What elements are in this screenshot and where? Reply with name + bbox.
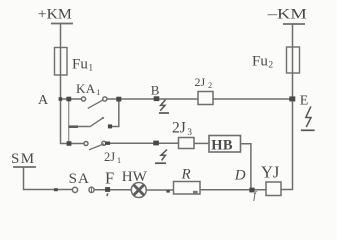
svg-text:D: D [234, 168, 246, 184]
svg-text:Fu2: Fu2 [252, 54, 273, 71]
junction dot row1 x69 [66, 97, 71, 102]
flash bus symbol below row3 junction [155, 150, 167, 164]
node B junction dot [154, 96, 160, 101]
wire SM down and bottom row to SA [24, 167, 73, 190]
lamp HW [131, 183, 146, 198]
svg-text:SA: SA [69, 171, 90, 187]
svg-text:2J2: 2J2 [195, 75, 213, 90]
relay coil 2J3 [179, 138, 195, 149]
resistor R [174, 182, 201, 195]
svg-text:HB: HB [211, 138, 233, 154]
flash bus symbol below E [301, 106, 315, 130]
wire 2J3 to HB [194, 142, 209, 144]
svg-text:KA1: KA1 [76, 81, 101, 97]
flash bus symbol below B [159, 100, 169, 113]
node +KM terminal bar [51, 23, 73, 25]
wire SA to lamp [94, 189, 131, 191]
contact KA1 [81, 97, 85, 101]
svg-text:2J3: 2J3 [172, 120, 192, 139]
wire R to D [200, 189, 266, 191]
svg-text:Fu1: Fu1 [72, 57, 93, 74]
node A junction dot [59, 97, 63, 101]
relay coil 2J2 [198, 92, 213, 105]
switch SA [72, 187, 77, 192]
junction dot node D [249, 188, 254, 193]
wire row1 coil to E [213, 98, 292, 100]
wire branch vertical row1 to row3 [68, 99, 70, 144]
junction dot row1 x119 [116, 97, 121, 102]
fuse Fu1 [55, 48, 68, 76]
svg-text:–KM: –KM [267, 7, 307, 23]
svg-text:E: E [300, 94, 309, 109]
wire HB to node D [241, 144, 251, 190]
wire row2 left [69, 126, 90, 128]
junction dot row2 contact [108, 124, 112, 128]
junction dot row3 x69 [67, 141, 72, 146]
relay coil YJ [266, 182, 281, 196]
svg-text:SM: SM [11, 151, 35, 167]
wire row3 to coil 2J3 [106, 142, 179, 144]
wire thick start of row2 [69, 125, 78, 128]
svg-text:A: A [38, 93, 49, 108]
wire row1 KA1 to coil 2J2 [107, 98, 198, 100]
svg-text:2J1: 2J1 [104, 150, 121, 165]
svg-text:R: R [181, 167, 191, 183]
svg-text:f: f [253, 191, 257, 202]
mark below node F [106, 193, 109, 196]
node E junction dot [289, 96, 295, 101]
wire row2 right and vertical up [112, 99, 119, 127]
flasher unit HB box [209, 136, 241, 153]
junction dot row3 x156 [153, 141, 159, 146]
junction dot node F [105, 187, 110, 192]
blob inside R box [193, 191, 198, 194]
svg-text:B: B [151, 83, 160, 98]
junction dot row3 x107 [105, 142, 110, 145]
wire left vertical from +KM through Fu1 to row3 corner [61, 24, 85, 144]
tick on bottom wire left of SA [54, 188, 58, 191]
contact blade row2 [90, 118, 103, 127]
svg-text:YJ: YJ [261, 163, 280, 182]
tick below wire at R input [166, 190, 169, 192]
contact 2J1 row3 [84, 142, 88, 146]
svg-text:F: F [105, 168, 114, 187]
wire row1 A to KA1 left [61, 98, 82, 100]
node SM terminal bar [13, 166, 36, 168]
svg-text:+KM: +KM [38, 7, 72, 23]
wire lamp to R [146, 189, 173, 191]
wire right vertical -KM through Fu2 down to YJ [281, 24, 293, 190]
svg-text:HW: HW [122, 169, 148, 185]
fuse Fu2 [287, 47, 300, 73]
node -KM terminal bar [283, 23, 305, 25]
